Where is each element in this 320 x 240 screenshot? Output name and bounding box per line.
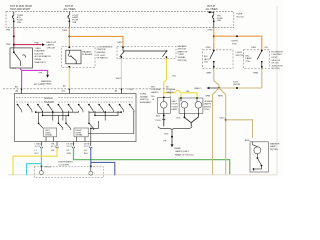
node B+ feed label middle xyxy=(64,5,76,11)
svg-text:25 C2: 25 C2 xyxy=(84,146,90,148)
svg-text:W/O: W/O xyxy=(151,86,156,88)
svg-text:CLUSTER: CLUSTER xyxy=(59,164,70,166)
svg-text:BLOCK): BLOCK) xyxy=(272,68,280,70)
svg-text:S417: S417 xyxy=(233,81,239,83)
wire YEL branch to license lamps xyxy=(164,90,197,98)
svg-text:BLK: BLK xyxy=(165,134,170,136)
svg-text:B/P (YEL): B/P (YEL) xyxy=(34,84,44,86)
wire WHT hazard to COM xyxy=(115,58,133,92)
wire PPL branch to warning systems xyxy=(22,70,52,85)
svg-text:FUSE: FUSE xyxy=(237,14,243,16)
svg-text:LIGHTING: LIGHTING xyxy=(272,54,283,56)
wire DK GRN long run xyxy=(74,148,230,175)
wire ORN branch to junction block xyxy=(214,35,268,50)
svg-text:P101: P101 xyxy=(156,120,162,122)
svg-text:ORN: ORN xyxy=(251,47,256,49)
svg-text:BLOCK: BLOCK xyxy=(237,16,245,18)
wire BLK lamp L2 grounds xyxy=(177,113,199,126)
svg-text:HAZARD: HAZARD xyxy=(178,45,187,48)
svg-text:TEST AND START: TEST AND START xyxy=(10,8,31,11)
svg-text:(LEFT: (LEFT xyxy=(272,57,279,59)
internal link wire xyxy=(88,111,134,134)
svg-text:ACCELERATOR: ACCELERATOR xyxy=(35,55,52,58)
svg-text:MARKER: MARKER xyxy=(270,142,280,145)
wire YEL to front xyxy=(13,148,57,176)
hazard switch S1 dashed box xyxy=(117,47,176,59)
svg-text:LAMPS: LAMPS xyxy=(204,103,212,106)
node B+ feed label left xyxy=(10,5,32,11)
svg-text:INSTRUMENT: INSTRUMENT xyxy=(59,162,74,164)
wire BRN left drop xyxy=(206,88,220,175)
svg-text:B/U: B/U xyxy=(246,55,250,57)
wire BRN from light switch xyxy=(207,69,220,89)
svg-text:LAMPS: LAMPS xyxy=(47,44,55,47)
svg-text:WHT: WHT xyxy=(116,78,122,80)
lamp L3 label xyxy=(270,142,280,151)
wire BRN bus horizontal xyxy=(218,81,262,89)
hazard flasher U2 xyxy=(66,47,93,68)
turn flasher U1 box xyxy=(10,48,51,68)
svg-text:(BEHIND: (BEHIND xyxy=(97,52,106,54)
wire ORN from fuse F2 xyxy=(62,28,70,48)
indicator lamp right turn xyxy=(89,166,93,175)
wire YEL flasher output xyxy=(34,68,69,93)
svg-text:BACK-UP: BACK-UP xyxy=(47,41,57,44)
svg-text:ORN: ORN xyxy=(117,42,122,44)
svg-text:BLU: BLU xyxy=(84,153,88,155)
light switch dashed box xyxy=(202,50,233,69)
svg-text:LAMPS: LAMPS xyxy=(166,91,174,94)
svg-text:BLK: BLK xyxy=(156,115,161,117)
svg-text:BRN: BRN xyxy=(254,72,259,74)
fuse F1 TURN-B/U 10A xyxy=(12,12,23,28)
svg-text:LAMP: LAMP xyxy=(270,145,276,148)
svg-text:STOP/: STOP/ xyxy=(171,104,178,106)
svg-text:LAMP: LAMP xyxy=(171,108,177,111)
svg-text:CIRCUIT: CIRCUIT xyxy=(47,47,57,49)
svg-text:LAMPS (LEFT: LAMPS (LEFT xyxy=(175,150,190,153)
svg-text:TOW): TOW) xyxy=(204,109,210,111)
svg-text:(A/T): (A/T) xyxy=(204,58,209,61)
svg-text:REAR OF TRUCK): REAR OF TRUCK) xyxy=(175,153,194,156)
svg-text:10A: 10A xyxy=(17,21,21,24)
svg-text:HAZARD: HAZARD xyxy=(44,101,54,104)
wire PNK from fuse F1 xyxy=(6,28,15,48)
svg-text:PNK: PNK xyxy=(35,42,40,44)
internal bus wiring xyxy=(36,111,121,121)
wire BRN branch to rear lamp xyxy=(219,118,252,142)
svg-text:BRN: BRN xyxy=(245,140,250,142)
junction block label xyxy=(272,51,284,70)
svg-text:PEDAL: PEDAL xyxy=(35,58,43,61)
svg-text:(W/TRL): (W/TRL) xyxy=(270,149,279,151)
svg-text:TURN: TURN xyxy=(178,54,184,56)
harness option label W/O xyxy=(151,86,161,94)
wire BLK lamp L1 ground xyxy=(156,113,166,126)
svg-text:REAR: REAR xyxy=(175,147,181,150)
wire PPL from flasher to switch xyxy=(12,68,22,89)
internal feed to DK BLU pin xyxy=(91,121,99,142)
wire BRN right drop xyxy=(218,88,226,175)
svg-text:S416: S416 xyxy=(219,118,225,120)
svg-text:BRN: BRN xyxy=(218,96,223,98)
svg-text:FLASHER: FLASHER xyxy=(82,53,93,56)
light switch label xyxy=(236,52,245,57)
lamp L1 right stop/turn xyxy=(151,96,178,114)
svg-text:SWITCH: SWITCH xyxy=(140,99,149,101)
contact row 1 xyxy=(17,104,134,112)
svg-text:GRN: GRN xyxy=(67,153,72,155)
harness option label W/ xyxy=(166,86,176,94)
svg-text:41 C2: 41 C2 xyxy=(51,146,57,148)
svg-text:24 C2: 24 C2 xyxy=(67,146,73,148)
svg-text:PNK: PNK xyxy=(6,44,11,46)
indicator lamp left turn xyxy=(39,166,51,174)
svg-text:LICENSE: LICENSE xyxy=(151,89,161,91)
svg-text:20A: 20A xyxy=(217,19,221,22)
svg-text:BRN: BRN xyxy=(207,72,212,74)
wire ORN branch to hazard switch xyxy=(69,36,123,47)
svg-text:TURN: TURN xyxy=(171,106,177,108)
svg-text:OF RADIO): OF RADIO) xyxy=(97,57,109,60)
wire ORN from fuse F3 xyxy=(206,28,215,50)
svg-text:UB: UB xyxy=(265,47,269,49)
canceling cam box left xyxy=(44,128,57,142)
node B+ feed label right xyxy=(206,5,218,11)
wire LT BLU xyxy=(27,148,43,176)
canceling cam box right xyxy=(74,128,88,142)
svg-text:FLASHER: FLASHER xyxy=(35,50,46,53)
page border bottom faint xyxy=(8,174,277,176)
svg-text:(W/UB): (W/UB) xyxy=(233,84,240,86)
pin labels bottom xyxy=(35,143,92,155)
svg-text:W/TRL: W/TRL xyxy=(232,41,240,43)
svg-text:JUNCTION: JUNCTION xyxy=(272,65,283,67)
svg-text:COM: COM xyxy=(128,89,133,91)
svg-text:PNK: PNK xyxy=(6,30,11,32)
svg-text:SIGNAL: SIGNAL xyxy=(75,134,83,137)
svg-text:SIDE OF: SIDE OF xyxy=(272,60,281,62)
svg-text:41 C2: 41 C2 xyxy=(35,146,41,148)
svg-text:LIGHT: LIGHT xyxy=(236,52,243,54)
instrument cluster dashed box xyxy=(34,167,103,178)
svg-text:ORN: ORN xyxy=(206,47,211,49)
contact row 2 xyxy=(35,111,122,130)
hazard switch label xyxy=(178,45,189,62)
svg-text:LAMP: LAMP xyxy=(246,57,252,60)
svg-text:SIGNAL: SIGNAL xyxy=(140,95,149,98)
svg-text:SWITCH: SWITCH xyxy=(178,49,187,51)
wire BRN from junction block xyxy=(254,69,262,89)
svg-text:HAZARD: HAZARD xyxy=(82,50,91,53)
page border right faint xyxy=(276,6,278,175)
svg-text:ORN: ORN xyxy=(208,30,213,32)
fuse block label xyxy=(237,14,245,19)
svg-text:RADIO: RADIO xyxy=(195,87,202,90)
convenience center label xyxy=(97,46,114,59)
svg-text:LAMPS: LAMPS xyxy=(151,91,159,94)
svg-text:20A: 20A xyxy=(72,21,76,24)
svg-text:BRN: BRN xyxy=(206,96,211,98)
svg-text:SWITCH): SWITCH) xyxy=(178,60,188,62)
turn signal switch assembly label xyxy=(140,94,152,104)
svg-text:(ON THE: (ON THE xyxy=(35,53,44,55)
turn signal switch assembly dashed box xyxy=(3,89,170,97)
instrument cluster label xyxy=(59,162,74,167)
svg-text:(PART OF: (PART OF xyxy=(178,50,189,53)
convenience center dashed box xyxy=(62,47,95,68)
svg-text:SIGNAL: SIGNAL xyxy=(178,56,187,59)
switch assembly body box xyxy=(14,94,136,142)
svg-text:EXTERIOR: EXTERIOR xyxy=(272,51,284,53)
svg-text:ORN: ORN xyxy=(62,30,67,32)
lamp L3 rear lamp assembly xyxy=(250,142,268,172)
wire DK BLU xyxy=(90,148,115,176)
svg-text:WARNING: WARNING xyxy=(41,80,52,83)
svg-text:TURN: TURN xyxy=(140,94,146,96)
svg-text:CONVENIENCE: CONVENIENCE xyxy=(97,46,114,48)
svg-text:TURN: TURN xyxy=(35,48,41,50)
lamp L2 license lamps pair xyxy=(179,97,214,113)
svg-text:ALL TIMES: ALL TIMES xyxy=(64,8,76,11)
svg-text:B/U: B/U xyxy=(204,56,208,58)
svg-text:CENTER: CENTER xyxy=(97,49,106,51)
svg-text:SIGNAL: SIGNAL xyxy=(44,97,54,100)
svg-text:(TRL: (TRL xyxy=(246,61,252,63)
svg-text:SIGNAL: SIGNAL xyxy=(45,134,53,137)
wire PNK branch to backup lamps xyxy=(13,41,57,50)
wire YEL hazard feed down xyxy=(164,58,177,97)
switch position row HAZARD xyxy=(16,101,134,104)
svg-text:W/: W/ xyxy=(166,86,169,88)
svg-text:BLK: BLK xyxy=(177,117,182,119)
connector pins bottom of switch xyxy=(40,142,92,149)
svg-text:BLU: BLU xyxy=(35,153,39,155)
fuse F3 TRL TOW 20A xyxy=(208,11,223,28)
svg-text:BRACKET): BRACKET) xyxy=(35,61,46,64)
svg-text:ASSEMBLY: ASSEMBLY xyxy=(140,101,152,104)
svg-text:I/P, ON: I/P, ON xyxy=(272,63,279,65)
svg-text:(W/TRL: (W/TRL xyxy=(204,106,212,108)
junction block dashed box xyxy=(243,50,269,69)
svg-text:I/P, LEFT: I/P, LEFT xyxy=(97,55,107,57)
svg-text:TAIL/: TAIL/ xyxy=(171,100,176,103)
I/P fuse block dashed box xyxy=(6,12,234,28)
pin stubs into body xyxy=(21,89,122,94)
svg-text:ALL TIMES: ALL TIMES xyxy=(206,8,218,11)
splice to rear lamps harness xyxy=(164,130,194,156)
svg-text:1R C2: 1R C2 xyxy=(45,167,52,169)
switch position row SIGNAL xyxy=(16,97,134,100)
RADIO arrow xyxy=(195,87,220,90)
svg-text:LICENSE: LICENSE xyxy=(166,89,176,91)
ground brace node xyxy=(158,126,192,130)
fuse F2 STOP-LAMP 20A xyxy=(68,12,79,28)
